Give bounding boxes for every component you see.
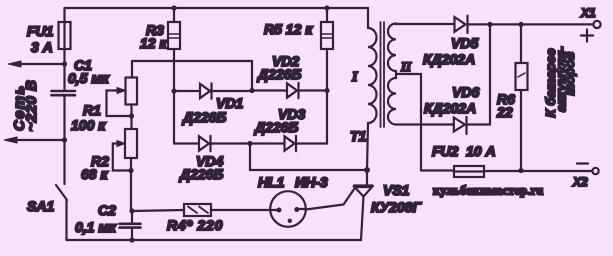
- thyristor VS1 gate: [344, 187, 356, 205]
- node top rail R5 junction: [324, 5, 329, 10]
- resistor R1 body: [126, 78, 138, 105]
- arrow mains lower: [4, 137, 17, 143]
- svg-text:I: I: [351, 70, 358, 85]
- label minus: [577, 162, 588, 164]
- wire VD3 anode lead: [250, 142, 285, 144]
- svg-text:II: II: [400, 59, 412, 74]
- transformer T1 secondary lower winding: [388, 78, 396, 125]
- resistor R2 body: [125, 129, 137, 158]
- wire VD6 cathode up to plus rail: [467, 24, 491, 124]
- thyristor VS1 cathode lead: [361, 197, 364, 241]
- resistor R4 body: [184, 204, 211, 216]
- arrow mains upper: [8, 61, 21, 67]
- svg-text:R1: R1: [83, 102, 101, 118]
- node top rail R3 junction: [171, 5, 176, 10]
- node R3/VD1 junction: [171, 88, 176, 93]
- transformer T1 secondary upper winding: [388, 24, 396, 72]
- switch SA1 blade: [56, 185, 67, 200]
- svg-text:FU1: FU1: [27, 23, 54, 39]
- svg-text:R4* 220: R4* 220: [167, 217, 223, 233]
- wire VD5 cathode to node: [468, 23, 491, 25]
- resistor R6 body: [516, 63, 528, 90]
- wire FU1 through-line: [63, 22, 65, 49]
- diode VD3: [285, 136, 297, 151]
- wire C2 bottom lead: [131, 229, 133, 240]
- svg-text:12 к: 12 к: [140, 35, 167, 51]
- svg-text:3 А: 3 А: [31, 39, 53, 55]
- wire VD1 cathode to mid: [212, 90, 253, 92]
- wire R2 bottom lead: [130, 158, 132, 211]
- capacitor C1: [52, 91, 76, 95]
- diode VD2: [287, 83, 299, 98]
- label plus: [581, 30, 593, 42]
- wire R6 top lead: [520, 24, 522, 63]
- node C2 bottom rail junction: [129, 237, 134, 242]
- svg-text:КУ208Г: КУ208Г: [371, 199, 422, 215]
- svg-text:Т1: Т1: [350, 128, 367, 144]
- svg-text:68 к: 68 к: [81, 166, 108, 182]
- wire C1 top lead: [63, 64, 65, 90]
- svg-text:Д226Б: Д226Б: [179, 166, 223, 182]
- svg-text:HL1: HL1: [258, 174, 285, 190]
- wire R6 bottom lead: [520, 90, 522, 171]
- wire secondary center tap: [396, 74, 421, 171]
- wire R5 top lead: [326, 8, 328, 22]
- svg-text:22: 22: [496, 104, 513, 120]
- svg-text:R5 12 к: R5 12 к: [264, 21, 313, 37]
- wire VD4 cathode to mid: [211, 142, 251, 144]
- wire R5 bottom / bridge right vertical: [326, 49, 328, 144]
- HL1 right electrode: [300, 208, 306, 210]
- wire top rail left: [65, 7, 369, 9]
- wire R1 wiper loop: [107, 91, 132, 117]
- node R5/VD2 junction: [324, 88, 329, 93]
- resistor R4 inner slashes: [188, 207, 208, 214]
- neon lamp HL1 circle: [270, 191, 306, 227]
- svg-text:Д226Б: Д226Б: [257, 66, 301, 82]
- node VD5/VD6 output junction: [487, 22, 492, 27]
- fuse FU2: [454, 166, 484, 177]
- wire HL1 to VS1 gate: [306, 205, 344, 210]
- wire secondary bottom to VD6: [396, 123, 454, 125]
- svg-text:ИН-3: ИН-3: [295, 174, 328, 190]
- thyristor VS1 triangle: [355, 187, 373, 197]
- svg-text:X2: X2: [572, 175, 588, 189]
- diode VD1: [200, 83, 212, 98]
- wire C2 top lead: [131, 211, 133, 223]
- svg-text:X1: X1: [580, 6, 596, 20]
- wire SA1 top lead: [63, 140, 65, 184]
- svg-text:С2: С2: [98, 202, 116, 218]
- wire secondary top to VD5: [396, 22, 455, 25]
- transformer T1 primary lead top: [367, 8, 369, 28]
- HL1 gas dot: [288, 219, 292, 223]
- svg-text:VD5: VD5: [451, 35, 478, 51]
- wire bridge output down: [250, 144, 367, 171]
- wire R4 left lead: [132, 210, 184, 211]
- wire left vertical: FU1 leads: [63, 8, 65, 64]
- wire plus rail to X1: [490, 23, 593, 25]
- arrow R2 wiper: [117, 141, 125, 147]
- wire bottom rail: [67, 239, 362, 241]
- wire FU2 through-line: [454, 170, 484, 172]
- thyristor VS1 anode lead: [366, 170, 368, 186]
- wire minus rail to X2: [484, 170, 592, 172]
- wire VD4 anode lead: [174, 142, 199, 144]
- wire R3 bottom lead to bridge: [173, 49, 175, 144]
- wire R1 top to bridge mid: [132, 61, 252, 91]
- terminal X2: [592, 168, 598, 174]
- diode VD6: [454, 117, 467, 134]
- wire VD3 cathode lead: [296, 142, 327, 144]
- wire VD2 anode lead: [252, 89, 286, 91]
- svg-text:10 А: 10 А: [466, 143, 496, 159]
- resistor R3 body: [168, 22, 180, 49]
- svg-text:КД202А: КД202А: [424, 100, 476, 116]
- svg-text:торов: торов: [562, 52, 577, 96]
- node VD1-VD2 mid junction: [249, 88, 254, 93]
- node R1 bottom junction: [129, 113, 134, 118]
- wire R4 to HL1: [211, 209, 270, 211]
- wire mains upper terminal line: [13, 63, 65, 65]
- svg-text:Д226Б: Д226Б: [254, 119, 298, 135]
- wire VD2 cathode lead: [299, 89, 328, 91]
- wire SA1 bottom lead to bottom rail: [65, 200, 67, 240]
- wire VD1 anode lead: [174, 90, 200, 92]
- wire C1 bottom lead: [63, 97, 65, 141]
- svg-text:SA1: SA1: [27, 198, 54, 214]
- node R2 bottom junction: [128, 168, 133, 173]
- svg-text:FU2: FU2: [432, 143, 459, 159]
- wire R1 top lead: [131, 61, 133, 78]
- node VD4-VD3 mid junction: [247, 141, 252, 146]
- svg-text:~220 В: ~220 В: [23, 80, 40, 132]
- svg-text:0,1 мк: 0,1 мк: [75, 219, 117, 235]
- transformer T1 core: [381, 22, 385, 127]
- wire R1-R2 link: [130, 105, 132, 130]
- svg-text:Д226Б: Д226Б: [182, 109, 226, 125]
- wire R2 wiper loop: [113, 144, 131, 171]
- svg-text:VS1: VS1: [383, 182, 410, 198]
- HL1 left electrode: [270, 209, 276, 211]
- wire mains lower terminal line: [9, 139, 65, 141]
- svg-text:100 к: 100 к: [71, 117, 106, 133]
- svg-text:0,5 мк: 0,5 мк: [68, 70, 110, 86]
- svg-text:VD6: VD6: [452, 84, 479, 100]
- arrow R1 wiper: [117, 88, 126, 94]
- node junction C1/SA1/mains: [62, 137, 67, 142]
- node R6 top junction: [518, 22, 523, 27]
- capacitor C2: [120, 224, 141, 228]
- svg-text:кульбакимастер.ru: кульбакимастер.ru: [433, 183, 543, 197]
- transformer T1 primary lead bottom: [367, 123, 368, 170]
- resistor R6 inner mark: [518, 73, 525, 77]
- thyristor VS1 bar: [354, 184, 373, 186]
- wire R3 top lead: [173, 8, 175, 22]
- resistor R5 body: [321, 22, 333, 49]
- diode VD4: [199, 136, 211, 151]
- node junction FU1/C1/mains: [62, 61, 67, 66]
- transformer T1 primary winding I: [368, 28, 377, 123]
- terminal X1: [593, 21, 600, 28]
- wire minus rail to FU2: [421, 169, 454, 171]
- transformer T1 secondary link: [395, 71, 397, 78]
- node C2/R4 junction: [129, 208, 134, 213]
- svg-text:КД202А: КД202А: [423, 51, 475, 67]
- diode VD5: [455, 16, 468, 33]
- node VS1 anode junction: [364, 167, 370, 173]
- fuse FU1: [59, 22, 71, 49]
- node R6 bottom junction: [518, 168, 523, 173]
